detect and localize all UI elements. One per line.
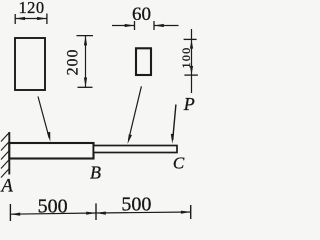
svg-text:C: C bbox=[173, 154, 185, 173]
svg-text:B: B bbox=[90, 162, 101, 182]
svg-text:120: 120 bbox=[19, 0, 45, 17]
svg-text:P: P bbox=[183, 94, 195, 114]
svg-text:200: 200 bbox=[64, 49, 81, 76]
svg-text:A: A bbox=[0, 177, 14, 197]
